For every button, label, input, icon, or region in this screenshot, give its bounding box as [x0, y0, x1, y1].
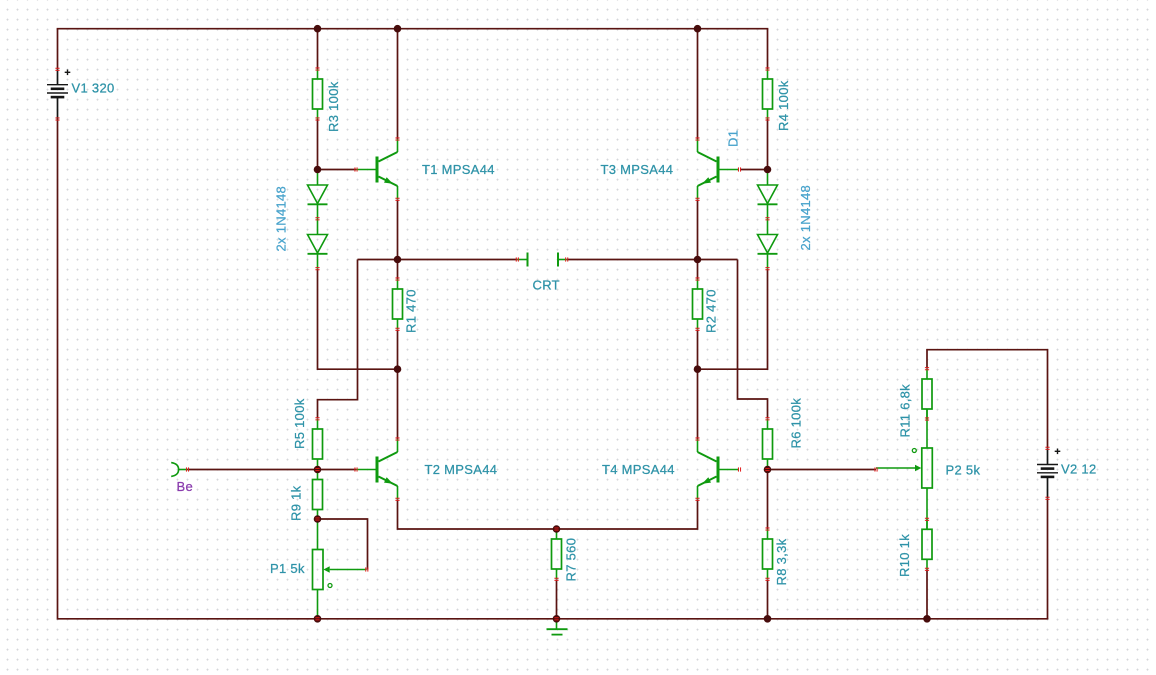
pin CRT left: [516, 257, 518, 261]
wire R1 bottom to T2 collector: [397, 329, 399, 439]
pin R1.2: [395, 328, 399, 330]
wire R4 top feed: [767, 29, 769, 69]
wire Be input net: [188, 469, 357, 471]
pin P1.2 at node: [315, 618, 319, 620]
wire V2 minus to rail: [1047, 498, 1049, 619]
wire T4 base to P2 wiper: [768, 469, 877, 471]
resistor R7: [552, 529, 562, 579]
battery V2: [1037, 448, 1060, 498]
node rail / ground: [553, 615, 561, 623]
pin T2 B: [355, 467, 357, 471]
resistor R4: [763, 69, 773, 119]
wire P1 top net: [317, 519, 319, 550]
node CRT left / R1: [394, 256, 402, 264]
svg-text:R9 1k: R9 1k: [289, 485, 304, 521]
wire T3 collector feed: [697, 29, 699, 139]
pin R3.2: [315, 118, 319, 120]
wire T3 base net: [740, 169, 768, 171]
wire CRT node to R5: [318, 260, 358, 419]
resistor R3: [313, 69, 323, 119]
pin CRT right: [566, 257, 568, 261]
pin R2.1: [695, 278, 699, 280]
pin V2 -: [1045, 497, 1049, 499]
wire R10 to rail: [926, 569, 928, 619]
wire R8 top: [767, 470, 769, 530]
svg-text:R2 470: R2 470: [704, 289, 719, 333]
wire left rail lower: [57, 119, 59, 620]
wire R4 to diode node: [767, 119, 769, 170]
pin R11.1: [925, 368, 929, 370]
svg-text:2x 1N4148: 2x 1N4148: [274, 186, 289, 252]
pin T2 E: [395, 498, 399, 500]
pin R7.1 at node: [554, 528, 558, 530]
wire emitter rail: [398, 499, 698, 529]
wire R11-P2 net: [926, 409, 928, 448]
resistor R10: [922, 519, 932, 569]
wire T3 emitter to CRT node: [697, 199, 699, 259]
pin T1 E: [395, 198, 399, 200]
pin D1 mid: [765, 218, 769, 220]
transistor T2: [356, 439, 398, 499]
pin D1 cathode: [765, 268, 769, 270]
wire R7 to ground rail: [556, 579, 558, 619]
wire T1 base net: [318, 169, 357, 171]
svg-text:D1: D1: [726, 130, 741, 147]
pin P2 wiper: [875, 467, 877, 471]
capacitor CRT deflection plates: [517, 253, 566, 267]
diode pair D2 2x 1N4148: [308, 170, 328, 269]
svg-text:R1 470: R1 470: [404, 289, 419, 333]
node top rail / T3: [694, 25, 702, 33]
pin R6.2 at node: [765, 468, 769, 470]
wire R2 bottom to T4 collector: [697, 329, 699, 439]
pin R7.2: [554, 578, 558, 580]
pin R1.1: [395, 278, 399, 280]
wire gnd stub: [556, 619, 558, 629]
pin Be: [186, 467, 188, 471]
resistor R11: [922, 369, 932, 419]
pin R4.1: [765, 68, 769, 70]
node CRT right / R2: [694, 256, 702, 264]
pin T3 B: [738, 167, 740, 171]
resistor R1: [393, 279, 403, 329]
svg-text:T3 MPSA44: T3 MPSA44: [601, 162, 674, 177]
wire CRT left net: [358, 259, 518, 261]
wire CRT node to R6: [738, 260, 768, 419]
wire P1 wiper net: [318, 519, 368, 570]
wire CRT right net: [567, 259, 738, 261]
svg-text:R11 6,8k: R11 6,8k: [898, 384, 913, 438]
wire bottom rail: [58, 618, 1049, 620]
wire R1 top: [397, 260, 399, 280]
svg-text:T2 MPSA44: T2 MPSA44: [425, 462, 498, 477]
wire T1 emitter to CRT node: [397, 199, 399, 259]
pin T3 E: [695, 198, 699, 200]
resistor R9: [313, 470, 323, 520]
node top rail / R3: [314, 25, 322, 33]
svg-text:R4 100k: R4 100k: [776, 80, 791, 131]
node rail / R10: [923, 615, 931, 623]
node R6 / R8 / wiper: [764, 466, 772, 474]
pin V1 +: [55, 68, 59, 70]
transistor T1: [356, 139, 398, 199]
pin R2.2: [695, 328, 699, 330]
svg-text:R7 560: R7 560: [564, 538, 579, 582]
wire R8 bottom: [767, 579, 769, 619]
node rail / R8: [764, 615, 772, 623]
node diodes / R2: [694, 365, 702, 373]
wire diodes D1 to node: [698, 269, 768, 370]
node T1 base / diodes: [314, 166, 322, 174]
svg-text:P1 5k: P1 5k: [270, 561, 305, 576]
wire R3 top feed: [317, 29, 319, 69]
pin D2 mid: [315, 218, 319, 220]
pin R10.2: [925, 568, 929, 570]
pin R5.1: [315, 418, 319, 420]
wire R11 to V2 plus: [927, 350, 1048, 449]
ground: [547, 629, 568, 634]
transistor T3: [698, 139, 740, 199]
pin R8.1: [765, 528, 769, 530]
transistor T4: [698, 439, 740, 499]
node R9 / P1: [314, 515, 322, 523]
svg-text:T1 MPSA44: T1 MPSA44: [422, 162, 495, 177]
wire Be pin stub: [179, 469, 188, 471]
pin R3.1: [315, 68, 319, 70]
node rail / P1: [314, 615, 322, 623]
pin T2 C: [395, 438, 399, 440]
wire P1 bottom net: [317, 590, 319, 619]
node top rail / T1: [394, 25, 402, 33]
wire top rail: [57, 28, 769, 30]
svg-text:T4 MPSA44: T4 MPSA44: [602, 462, 675, 477]
node emitter rail / R7: [553, 525, 561, 533]
svg-text:P2 5k: P2 5k: [946, 463, 981, 478]
pin R5.2/R9.1 at node: [315, 468, 319, 470]
pin R4.2: [765, 118, 769, 120]
pin T1 C: [395, 138, 399, 140]
resistor R5: [313, 419, 323, 469]
wire R2 top: [697, 260, 699, 280]
pin GND at node: [554, 618, 558, 620]
resistor R2: [693, 279, 703, 329]
node Be / R5 / R9: [314, 466, 322, 474]
wire P2-R10 net: [926, 488, 928, 530]
pin V1 -: [55, 118, 59, 120]
pin T4 E: [695, 498, 699, 500]
pin T4 B: [738, 467, 740, 471]
svg-text:2x 1N4148: 2x 1N4148: [798, 185, 813, 251]
pin D2 cathode: [315, 268, 319, 270]
svg-text:R5 100k: R5 100k: [292, 398, 307, 449]
pin T1 B: [355, 167, 357, 171]
svg-text:R8 3,3k: R8 3,3k: [774, 538, 789, 585]
pin R8.2: [765, 578, 769, 580]
svg-text:R6 100k: R6 100k: [789, 398, 804, 449]
pin R11.2: [925, 418, 929, 420]
pin T3 C: [695, 138, 699, 140]
node T3 base / diodes: [764, 166, 772, 174]
node diodes / R1: [394, 365, 402, 373]
svg-text:R3 100k: R3 100k: [326, 81, 341, 132]
resistor R8: [763, 529, 773, 579]
wire R3 to diode node: [317, 119, 319, 170]
svg-text:R10 1k: R10 1k: [897, 534, 912, 577]
pin P1 wiper: [366, 567, 368, 571]
wire left rail upper: [57, 29, 59, 70]
pin R6.1: [765, 418, 769, 420]
pin V2 +: [1045, 447, 1049, 449]
battery V1: [47, 69, 70, 119]
svg-text:Be: Be: [177, 479, 194, 494]
wire diodes D2 to node: [318, 269, 398, 370]
pin R10.1: [925, 518, 929, 520]
pin R9.2/P1.1 at node: [315, 518, 319, 520]
pin T4 C: [695, 438, 699, 440]
resistor R6: [763, 419, 773, 469]
svg-text:V1 320: V1 320: [72, 81, 115, 96]
potentiometer P2: [876, 448, 932, 488]
svg-text:V2 12: V2 12: [1061, 462, 1096, 477]
connector Be: [171, 463, 178, 477]
wire T1 collector feed: [397, 29, 399, 139]
svg-text:CRT: CRT: [533, 278, 560, 293]
diode pair D1 2x 1N4148: [758, 170, 778, 269]
potentiometer P1: [313, 550, 367, 590]
